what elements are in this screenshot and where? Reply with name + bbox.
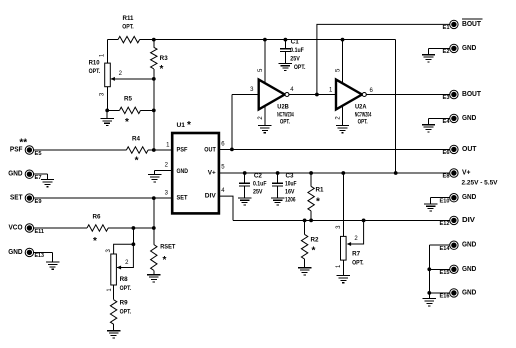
- potentiometer R7 body: [341, 236, 347, 260]
- terminal E2 (GND): [450, 44, 458, 52]
- svg-text:E8: E8: [443, 174, 450, 180]
- terminal E14 (GND): [450, 241, 458, 249]
- ground at U2A pin2: [336, 126, 349, 133]
- node R10 pin3 / R5 left junction: [105, 109, 109, 113]
- svg-text:OPT.: OPT.: [352, 261, 364, 267]
- node R3 bottom / R10 wiper junction: [152, 77, 156, 81]
- svg-text:GND: GND: [462, 45, 476, 52]
- svg-text:GND: GND: [462, 242, 476, 249]
- ground at E7: [41, 180, 54, 187]
- svg-text:GND: GND: [8, 171, 22, 178]
- svg-text:GND: GND: [462, 194, 476, 201]
- wire top rail y=39.6 (R11/R3 node to V+ feeder corner): [154, 39, 396, 41]
- svg-text:R4: R4: [132, 137, 141, 143]
- svg-text:DIV: DIV: [205, 193, 217, 200]
- wire R7 pin3 from V+ down: [342, 173, 344, 236]
- node V+ feeder junction: [394, 171, 398, 175]
- inverter U2B triangle: [259, 80, 285, 110]
- wire R7 pin1 to ground: [342, 260, 344, 275]
- wire SET junction down to VCO junction: [153, 198, 155, 228]
- wire OUT up to U2B input: [231, 95, 233, 150]
- wire BOUTbar up and right to E1: [317, 24, 450, 94]
- ground below E16 chain: [423, 299, 436, 306]
- potentiometer R10 body: [105, 63, 111, 87]
- ground at U2B pin2: [258, 126, 271, 133]
- svg-text:OUT: OUT: [462, 146, 477, 153]
- wire R9 to ground: [113, 324, 115, 331]
- node SET junction: [152, 196, 156, 200]
- svg-text:16V: 16V: [285, 190, 295, 196]
- terminal E16 (GND): [450, 289, 458, 297]
- ground below C2: [238, 198, 251, 205]
- capacitor C3: [277, 173, 279, 183]
- svg-text:**: **: [19, 137, 27, 148]
- U2B pin5 power wire: [264, 40, 266, 83]
- terminal E4 (GND): [450, 114, 458, 122]
- op-amp/IC U1 body: [172, 133, 219, 213]
- svg-text:BOUT: BOUT: [462, 91, 482, 98]
- wire E4 to ground: [429, 117, 451, 119]
- wire DIV from U1 pin4: [219, 196, 233, 220]
- U2B output bubble: [285, 93, 289, 97]
- resistor R1 with leads: [310, 173, 312, 186]
- svg-text:R6: R6: [93, 215, 102, 221]
- svg-text:U1: U1: [177, 122, 186, 129]
- svg-text:0.1uF: 0.1uF: [253, 182, 267, 188]
- node R8 pin3/wiper tie: [132, 242, 136, 246]
- svg-text:*: *: [312, 245, 316, 256]
- svg-text:GND: GND: [462, 115, 476, 122]
- node VCO/R8 junction: [132, 226, 136, 230]
- terminal E9 (SET input): [25, 194, 33, 202]
- svg-text:U2B: U2B: [277, 104, 289, 110]
- node BOUTbar junction: [315, 93, 319, 97]
- svg-text:OPT.: OPT.: [120, 286, 132, 292]
- svg-text:E14: E14: [440, 246, 451, 252]
- ground below R2: [298, 268, 311, 275]
- U2B pin2 ground wire: [264, 106, 266, 126]
- node OUT junction: [230, 148, 234, 152]
- terminal E11 (VCO input): [25, 224, 33, 232]
- wire U2A output to E3: [366, 94, 450, 96]
- svg-text:SET: SET: [10, 195, 23, 202]
- R7 wiper arrow: [347, 242, 351, 246]
- wire R10 pin1 up to R11: [107, 40, 109, 64]
- svg-text:OPT.: OPT.: [89, 69, 101, 75]
- resistor R3 with leads: [153, 40, 155, 48]
- svg-text:E1: E1: [443, 25, 450, 31]
- wire R8 pin1 to R9: [113, 285, 115, 300]
- R10 wiper arrow: [111, 77, 115, 81]
- svg-text:E5: E5: [35, 151, 42, 157]
- wire OUT rail U1 pin6 to E6: [219, 148, 450, 150]
- svg-text:E12: E12: [440, 221, 450, 227]
- ground below R10/R5: [101, 118, 114, 125]
- resistor R11: [118, 36, 140, 42]
- node U2A pin5 on top rail: [341, 38, 345, 42]
- terminal E1 (BOUTbar): [450, 20, 458, 28]
- svg-text:25V: 25V: [290, 56, 300, 62]
- capacitor C1: [284, 40, 286, 49]
- svg-text:PSF: PSF: [177, 147, 188, 154]
- ground at E4: [422, 125, 435, 132]
- svg-text:*: *: [187, 120, 191, 131]
- node R7 wiper on DIV: [362, 219, 366, 223]
- terminal E3 (BOUT): [450, 90, 458, 98]
- svg-text:GND: GND: [462, 266, 476, 273]
- wire VCO junction down to R8 node: [132, 228, 134, 244]
- svg-text:C3: C3: [286, 174, 295, 180]
- ground below R7: [337, 276, 350, 283]
- svg-text:GND: GND: [177, 168, 189, 175]
- node R1 on V+: [309, 171, 313, 175]
- wire R11 left lead: [108, 39, 119, 41]
- wire DIV rail to E12: [233, 219, 450, 221]
- terminal E6 (OUT): [450, 145, 458, 153]
- svg-text:BOUT: BOUT: [462, 21, 482, 28]
- ground at E2: [422, 55, 435, 62]
- wire R4 to U1 pin1: [148, 149, 172, 151]
- svg-text:V+: V+: [208, 170, 216, 177]
- R8 wiper arrow: [117, 266, 121, 270]
- node C1 on top rail: [284, 38, 288, 42]
- wire E7 to ground: [33, 173, 47, 175]
- wire U1 pin2 GND stub: [155, 169, 173, 171]
- resistor R2 with leads: [304, 220, 306, 234]
- wire V+ rail U1 pin5 to E8: [219, 172, 450, 174]
- svg-text:*: *: [316, 196, 320, 207]
- wire GND chain vertical E14-E16: [428, 245, 430, 298]
- wire E10 to ground: [431, 197, 451, 199]
- svg-text:*: *: [163, 255, 167, 266]
- svg-text:RSET: RSET: [160, 244, 176, 250]
- ground below R9: [107, 331, 120, 338]
- svg-text:C1: C1: [291, 40, 300, 46]
- svg-text:OPT.: OPT.: [120, 309, 132, 315]
- wire E2 to ground: [429, 47, 451, 49]
- svg-text:R5: R5: [124, 96, 133, 102]
- svg-text:2.25V - 5.5V: 2.25V - 5.5V: [462, 180, 499, 187]
- wire column R3 bottom to R5 right: [153, 79, 155, 150]
- svg-text:VCO: VCO: [9, 225, 24, 232]
- wire R5 right lead: [141, 109, 154, 111]
- svg-text:E13: E13: [35, 253, 45, 259]
- terminal E13 (GND): [25, 248, 33, 256]
- svg-text:E4: E4: [443, 119, 451, 125]
- wire U2B output to U2A input: [289, 94, 336, 96]
- svg-text:DIV: DIV: [462, 217, 475, 224]
- ground at E13: [46, 262, 59, 269]
- R8 wiper wire: [117, 244, 133, 267]
- svg-text:R9: R9: [120, 301, 129, 307]
- node R7 on V+: [341, 171, 345, 175]
- U2A output bubble: [362, 93, 366, 97]
- svg-text:R7: R7: [352, 251, 361, 257]
- inverter U2A triangle: [336, 80, 362, 110]
- svg-text:E11: E11: [35, 229, 45, 235]
- svg-text:0.1uF: 0.1uF: [290, 48, 304, 54]
- ground at U1 pin2: [148, 175, 161, 182]
- svg-text:E6: E6: [443, 150, 450, 156]
- node E16 chain junction: [427, 291, 431, 295]
- wire VCO rail left segment: [33, 227, 87, 229]
- resistor R4: [126, 147, 148, 153]
- svg-text:R10: R10: [89, 61, 101, 67]
- svg-text:GND: GND: [462, 289, 476, 296]
- svg-text:*: *: [93, 236, 97, 247]
- node C3 on V+: [276, 171, 280, 175]
- U2A pin2 ground wire: [342, 106, 344, 126]
- svg-text:NC7WZ04: NC7WZ04: [277, 112, 294, 118]
- svg-text:E7: E7: [35, 175, 42, 181]
- node R1 on DIV: [309, 219, 313, 223]
- svg-text:R2: R2: [311, 237, 320, 243]
- svg-text:SET: SET: [177, 195, 188, 202]
- wire R6 to RSET column: [108, 227, 154, 229]
- wire R10 pin3 down: [107, 87, 109, 111]
- svg-text:OUT: OUT: [204, 147, 216, 154]
- wire E14 branch: [429, 244, 450, 246]
- svg-text:*: *: [135, 156, 139, 167]
- svg-text:10uF: 10uF: [285, 182, 297, 188]
- svg-text:E2: E2: [443, 49, 450, 55]
- svg-text:E10: E10: [440, 198, 450, 204]
- resistor R6: [87, 225, 108, 231]
- wire E16 branch: [429, 292, 450, 294]
- ground below RSET: [147, 275, 160, 282]
- wire R11 right lead: [140, 39, 154, 41]
- R7 wiper wire: [349, 220, 364, 244]
- wire PSF rail left segment: [33, 149, 126, 151]
- node R11/R3 junction: [152, 38, 156, 42]
- node U2B pin5 on top rail: [263, 38, 267, 42]
- U2A pin5 power wire: [342, 40, 344, 83]
- node PSF/R3 junction: [152, 148, 156, 152]
- ground below C1: [279, 63, 292, 70]
- svg-text:C2: C2: [254, 174, 263, 180]
- svg-text:E15: E15: [440, 270, 450, 276]
- svg-text:R11: R11: [123, 16, 135, 22]
- svg-text:E16: E16: [440, 294, 450, 300]
- node R5 right junction: [152, 109, 156, 113]
- wire V+ feeder right side down: [395, 40, 397, 173]
- ground below C3: [271, 198, 284, 205]
- R10 wiper wire: [111, 78, 154, 80]
- svg-text:*: *: [160, 64, 164, 75]
- wire R5 left lead: [107, 109, 119, 111]
- svg-text:R8: R8: [120, 277, 129, 283]
- terminal E5 (PSF input): [25, 146, 33, 154]
- terminal E7 (GND): [25, 170, 33, 178]
- node E15 chain junction: [427, 267, 431, 271]
- wire E13 to ground: [33, 251, 52, 253]
- resistor R9: [110, 300, 116, 325]
- node R2 on DIV: [303, 219, 307, 223]
- node C2 on V+: [243, 171, 247, 175]
- resistor R5: [120, 107, 141, 113]
- node VCO/RSET junction: [152, 226, 156, 230]
- svg-text:E9: E9: [35, 199, 42, 205]
- resistor RSET with leads: [153, 228, 155, 245]
- svg-text:25V: 25V: [253, 190, 263, 196]
- svg-text:OPT.: OPT.: [294, 65, 306, 71]
- svg-text:OPT.: OPT.: [358, 119, 368, 125]
- svg-text:1206: 1206: [285, 197, 296, 203]
- svg-text:OPT.: OPT.: [122, 24, 134, 30]
- svg-text:R3: R3: [160, 56, 169, 62]
- svg-text:*: *: [125, 117, 129, 128]
- svg-text:GND: GND: [8, 249, 22, 256]
- terminal E10 (GND): [450, 194, 458, 202]
- terminal E8 (V+): [450, 169, 458, 177]
- terminal E12 (DIV): [450, 216, 458, 224]
- svg-text:V+: V+: [462, 170, 471, 177]
- svg-text:R1: R1: [316, 188, 325, 194]
- wire SET rail E9 to U1 pin3: [33, 197, 172, 199]
- capacitor C2: [244, 173, 246, 183]
- wire E15 branch: [429, 268, 450, 270]
- potentiometer R8 body: [111, 254, 117, 285]
- wire R8 pin3 path: [114, 244, 134, 254]
- ground at E10: [424, 204, 437, 211]
- svg-text:U2A: U2A: [355, 104, 367, 110]
- terminal E15 (GND): [450, 265, 458, 273]
- svg-text:NC7WZ04: NC7WZ04: [355, 112, 372, 118]
- wire stub to ground below R10: [106, 110, 108, 118]
- svg-text:OPT.: OPT.: [280, 119, 290, 125]
- svg-text:E3: E3: [443, 95, 450, 101]
